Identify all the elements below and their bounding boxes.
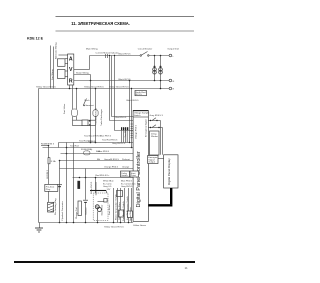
- wire P2 to AVR b: [65, 76, 68, 78]
- wire turbo vertical: [95, 89, 97, 110]
- svg-text:Speed Sensor: Speed Sensor: [129, 207, 132, 221]
- node dot riser C: [114, 55, 115, 56]
- wire riser B: [111, 56, 113, 117]
- svg-text:Orange RV0.5: Orange RV0.5: [104, 166, 119, 169]
- wire AVR V to main riser: [74, 69, 90, 71]
- svg-text:Digital Panel Display: Digital Panel Display: [167, 158, 171, 185]
- wire x77 drop: [76, 89, 78, 110]
- label box Pre-heat Plug: [45, 184, 58, 191]
- svg-text:11. ЭЛЕКТРИЧЕСКАЯ СХЕМА.: 11. ЭЛЕКТРИЧЕСКАЯ СХЕМА.: [71, 21, 129, 26]
- wire drop starter: [73, 143, 75, 223]
- svg-text:Two Blue RV0.75: Two Blue RV0.75: [96, 107, 98, 125]
- switch S2: [148, 118, 160, 121]
- wire w5: [60, 168, 134, 170]
- wire w2: [43, 147, 134, 149]
- wire alternator vertical 2: [53, 47, 55, 89]
- header rule top: [56, 15, 195, 17]
- node dot main 161: [160, 55, 162, 57]
- wire riser A: [109, 56, 111, 121]
- svg-text:Start Motor: Start Motor: [100, 204, 103, 215]
- svg-text:Gray RV0.5: Gray RV0.5: [121, 185, 133, 188]
- svg-text:Charge Coil: Charge Coil: [75, 207, 78, 219]
- svg-text:Gray RV0.5 3: Gray RV0.5 3: [150, 114, 164, 117]
- wire drop mid rail: [66, 143, 68, 223]
- node dot main 155: [154, 55, 156, 57]
- svg-text:Flywheel Generator: Flywheel Generator: [61, 201, 64, 220]
- svg-text:Gray RV0.5 3: Gray RV0.5 3: [112, 142, 126, 145]
- svg-text:Point: Point: [131, 174, 136, 177]
- svg-text:B RVB.3: B RVB.3: [47, 169, 49, 178]
- wire relay top: [73, 119, 96, 121]
- wire P1 to AVR b: [65, 63, 68, 65]
- svg-text:Switch: Switch: [121, 174, 128, 177]
- svg-text:Output: Output: [148, 161, 155, 164]
- wire battery plus riser: [95, 178, 97, 194]
- controller U2 Digital Panel Controller: [133, 111, 148, 222]
- wire relay bottom: [73, 125, 96, 127]
- svg-text:Two Black RV0.5: Two Black RV0.5: [84, 135, 101, 137]
- ground symbol: [35, 223, 43, 233]
- wire battery down: [85, 203, 87, 223]
- svg-text:Green/B RV0.5: Green/B RV0.5: [104, 158, 120, 161]
- svg-text:Circuit Breaker: Circuit Breaker: [138, 48, 153, 51]
- node dot red vb3: [48, 145, 50, 147]
- CT winding W2: [159, 66, 163, 74]
- svg-text:White RV0.5: White RV0.5: [90, 181, 93, 194]
- svg-text:Black RV0.5: Black RV0.5: [127, 100, 140, 102]
- node dot N 128: [129, 80, 131, 82]
- wire red vb3: [41, 145, 49, 147]
- label box Start Point: [130, 171, 139, 177]
- connector J3: [72, 109, 78, 116]
- wire h 130: [115, 130, 134, 132]
- starter solenoid K2: [98, 201, 104, 203]
- svg-text:12V: 12V: [107, 189, 111, 191]
- label Emergency Signal Output: [148, 156, 158, 164]
- svg-text:Emergency Signal: Emergency Signal: [145, 119, 148, 137]
- wire drop startkey: [95, 182, 97, 195]
- wire h 116: [112, 116, 134, 118]
- charging coil L1: [78, 201, 81, 216]
- relay K1: [82, 120, 88, 126]
- wire bottom rail: [39, 222, 134, 224]
- start assembly dashed box: [93, 193, 108, 220]
- terminal N: [169, 79, 175, 83]
- sensor box oil: [128, 211, 133, 218]
- wire drop CT2: [160, 56, 162, 89]
- switch S3: [148, 125, 162, 128]
- sensor box temp: [119, 210, 124, 217]
- display U3 Digital Panel Display: [164, 155, 178, 188]
- wire drop flywheel + plates: [59, 161, 61, 223]
- wire h 120.6: [110, 120, 134, 122]
- svg-text:Red RV0.5 D+: Red RV0.5 D+: [95, 175, 110, 177]
- node dot N 161: [160, 80, 162, 82]
- starter motor M1: [95, 205, 101, 212]
- cable thick horizontal: [148, 204, 172, 206]
- wire breaker to L terminal: [148, 55, 169, 57]
- svg-text:M: M: [96, 205, 98, 209]
- svg-text:Blue RV7.5: Blue RV7.5: [100, 136, 112, 138]
- wire w3: [61, 153, 134, 155]
- wire main horizontal L: [90, 55, 141, 57]
- connector P1 top winding: [58, 59, 66, 67]
- wire earth horizontal E: [39, 88, 170, 90]
- connector bar black: [77, 181, 80, 189]
- svg-text:White Blue: White Blue: [103, 180, 114, 183]
- svg-text:Winder: Winder: [151, 135, 158, 138]
- svg-text:Fuel Breaker Switch: Fuel Breaker Switch: [122, 201, 125, 221]
- wire main riser vertical: [89, 56, 91, 70]
- svg-text:Black RV1.5: Black RV1.5: [119, 54, 132, 56]
- terminal E: [169, 87, 175, 90]
- svg-text:Pre-heating Plug: Pre-heating Plug: [54, 198, 57, 215]
- svg-text:Main Wiring: Main Wiring: [86, 48, 98, 51]
- svg-text:Yellow Green RV1.5: Yellow Green RV1.5: [104, 226, 124, 229]
- wire alternator vertical 1: [50, 46, 52, 89]
- cable B plus bold: [90, 190, 106, 192]
- wire P2 to AVR a: [65, 70, 68, 72]
- node dot N 90: [90, 80, 92, 82]
- footer rule: [14, 261, 195, 263]
- terminal L: [169, 54, 175, 58]
- wire drop CT1: [154, 56, 156, 81]
- wire w3b: [60, 160, 134, 162]
- switch flameout S1: [83, 99, 94, 107]
- wire x72 lower: [72, 98, 74, 109]
- label box Delay Switch: [121, 171, 130, 177]
- node dot 69 earth: [69, 88, 71, 90]
- svg-text:KDE 12 E: KDE 12 E: [27, 36, 44, 40]
- wire w1: [59, 142, 134, 144]
- fuse F1: [81, 148, 92, 155]
- wire switch drop 1: [160, 121, 162, 155]
- svg-text:Charge: Charge: [122, 166, 130, 169]
- svg-text:Turbo Discharger: Turbo Discharger: [100, 109, 103, 126]
- svg-text:Preheat: Preheat: [122, 158, 130, 161]
- CT symbol ticks: [106, 54, 108, 58]
- wire stator riser down: [90, 75, 92, 143]
- node dot E 161: [160, 88, 162, 90]
- wire riser C: [114, 56, 116, 131]
- sensor wire 4: [124, 188, 126, 223]
- header rule bottom: [56, 30, 195, 32]
- svg-text:Low Oil Pressure Switch: Low Oil Pressure Switch: [126, 196, 129, 220]
- svg-text:Voltage RV0.5: Voltage RV0.5: [134, 124, 137, 139]
- wire switch drop 2: [162, 128, 164, 155]
- svg-text:Current Mutual Inductor: Current Mutual Inductor: [96, 51, 119, 54]
- op AVR U1: [68, 54, 74, 85]
- connector P2 bottom winding: [58, 70, 66, 79]
- svg-text:Blue RV0.5: Blue RV0.5: [121, 181, 133, 183]
- CT winding W1: [153, 66, 157, 74]
- svg-text:Plug: Plug: [46, 189, 51, 191]
- svg-text:V: V: [69, 67, 73, 73]
- svg-text:Output Grid: Output Grid: [167, 48, 179, 51]
- wire AVR R to N terminal: [74, 80, 169, 82]
- svg-text:Red RV0.5: Red RV0.5: [116, 117, 127, 119]
- svg-text:Yellow Green RV1.5: Yellow Green RV1.5: [109, 85, 129, 88]
- svg-text:A: A: [69, 57, 73, 63]
- sensor wire 1: [113, 188, 115, 223]
- wire stator horizontal: [74, 74, 91, 76]
- box delay winder: [150, 131, 159, 155]
- svg-text:Fuel Valve: Fuel Valve: [64, 103, 66, 114]
- svg-text:Fuel Meter: Fuel Meter: [108, 204, 111, 215]
- wire starter down: [97, 212, 99, 223]
- node dot N 155: [154, 80, 156, 82]
- wire AVR bottom lead 2: [72, 85, 74, 98]
- svg-text:Digital Panel Controller: Digital Panel Controller: [136, 151, 142, 207]
- svg-text:Pre-heat: Pre-heat: [46, 185, 55, 188]
- connector pin row: [121, 127, 128, 130]
- wire avr top left: [59, 54, 68, 56]
- svg-text:R: R: [69, 78, 73, 84]
- svg-text:Switch: Switch: [134, 114, 141, 117]
- wire w6: [73, 177, 134, 179]
- svg-text:Push: Push: [85, 100, 91, 102]
- svg-text:FUSE(I): FUSE(I): [88, 141, 96, 143]
- sensor wire 5: [128, 188, 130, 223]
- svg-text:RV1.5: RV1.5: [136, 94, 143, 96]
- svg-text:B+ Conn: B+ Conn: [103, 183, 112, 185]
- node dots bottom rail: [66, 222, 130, 224]
- box voltage sample switch: [133, 111, 150, 117]
- sensor wire 3: [120, 188, 122, 223]
- circuit breaker CB1: [140, 52, 149, 57]
- node dot w6 tap: [95, 177, 97, 179]
- node dot 77 earth: [76, 88, 78, 90]
- preheat plug R1: [48, 202, 54, 212]
- label box Earth Rod RV1.5: [135, 91, 147, 97]
- svg-text:Water Temperature Switch: Water Temperature Switch: [115, 194, 118, 220]
- sensor box fuel: [117, 191, 123, 197]
- svg-text:11: 11: [185, 266, 188, 270]
- svg-text:Yellow Green: Yellow Green: [133, 224, 147, 227]
- node dot riser A: [109, 55, 110, 56]
- connector tick column: [131, 124, 133, 138]
- cable thick display drop: [170, 188, 172, 204]
- svg-text:Alternator Wiring: Alternator Wiring: [55, 42, 58, 59]
- wire drop preheat: [48, 146, 50, 158]
- wire left rail: [38, 89, 40, 223]
- wire emergen to display: [158, 158, 164, 160]
- svg-text:Oil Pressure Alarm: Oil Pressure Alarm: [118, 202, 121, 220]
- svg-text:Yellow Green RV0.5: Yellow Green RV0.5: [84, 85, 104, 88]
- sensor wire 6: [131, 188, 133, 223]
- wire AVR bottom lead 1: [69, 85, 71, 88]
- wire drop battery: [85, 169, 87, 200]
- wire w1 left drop: [58, 143, 60, 148]
- svg-text:Stator Wiring: Stator Wiring: [76, 72, 89, 75]
- svg-text:Two Red RV0.5: Two Red RV0.5: [102, 140, 118, 142]
- svg-text:F 5A: F 5A: [51, 160, 56, 163]
- diode D1: [89, 120, 91, 125]
- svg-text:Yellow Green RV2.5: Yellow Green RV2.5: [36, 85, 56, 88]
- sensor wire 2: [117, 188, 119, 223]
- svg-text:Battery: Battery: [84, 207, 87, 215]
- svg-text:Gray 0.5: Gray 0.5: [103, 185, 112, 188]
- battery BT1: [83, 200, 88, 214]
- wire pin drops: [122, 130, 128, 143]
- svg-text:Flameout: Flameout: [85, 104, 95, 107]
- wire P1 to AVR a: [65, 58, 68, 60]
- svg-text:B+ Connection: B+ Connection: [121, 182, 136, 185]
- wire N tap down: [129, 81, 131, 143]
